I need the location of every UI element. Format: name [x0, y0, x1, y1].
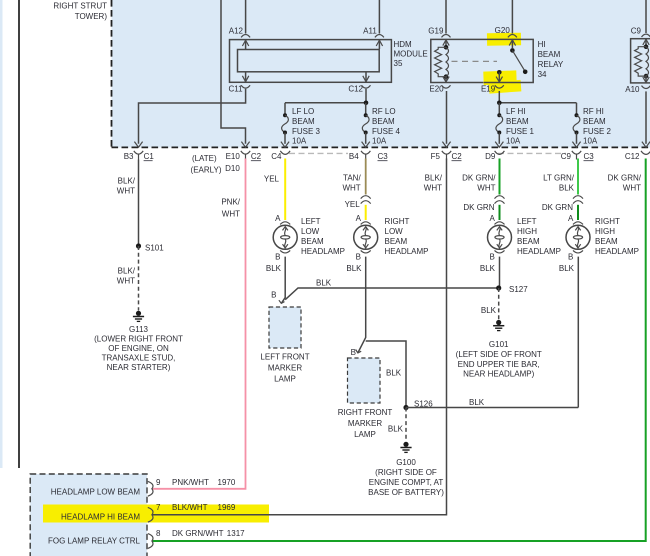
svg-text:BLK: BLK	[386, 368, 402, 377]
pin C11	[229, 72, 251, 94]
svg-text:BEAM: BEAM	[301, 237, 324, 246]
svg-text:HEADLAMP HI BEAM: HEADLAMP HI BEAM	[61, 513, 140, 522]
wire BLK splice branch to S127	[285, 288, 498, 300]
svg-text:34: 34	[538, 70, 547, 79]
svg-text:C2: C2	[251, 152, 262, 161]
svg-text:BEAM: BEAM	[583, 117, 606, 126]
row FOG LAMP RELAY CTRL	[48, 529, 245, 548]
svg-text:BLK: BLK	[559, 184, 575, 193]
lamp E5: LEFT HIGH BEAM HEADLAMP	[488, 214, 562, 262]
svg-text:A: A	[356, 214, 362, 223]
highlight over G20	[487, 33, 521, 46]
svg-text:TOWER): TOWER)	[75, 12, 108, 21]
svg-text:BLK/: BLK/	[425, 174, 443, 183]
connector B3 / C1	[124, 151, 155, 161]
svg-text:BLK: BLK	[346, 264, 362, 273]
pin E19	[481, 70, 504, 94]
svg-text:BEAM: BEAM	[292, 117, 315, 126]
lamp E6: RIGHT HIGH BEAM HEADLAMP	[566, 214, 639, 262]
svg-text:RIGHT: RIGHT	[385, 217, 410, 226]
svg-text:10A: 10A	[506, 137, 521, 146]
svg-text:1969: 1969	[218, 503, 236, 512]
svg-text:RIGHT STRUT: RIGHT STRUT	[53, 2, 107, 11]
labels LT GRN/BLK	[543, 174, 575, 193]
wire S127 to G101 (dashed)	[481, 288, 499, 320]
wire LT GRN/BLK	[577, 159, 579, 195]
svg-text:LEFT: LEFT	[517, 217, 537, 226]
svg-text:DK GRN/WHT: DK GRN/WHT	[172, 529, 224, 538]
svg-text:LEFT: LEFT	[301, 217, 321, 226]
svg-text:NEAR HEADLAMP): NEAR HEADLAMP)	[463, 370, 534, 379]
fuse LF HI BEAM FUSE 1	[495, 103, 534, 147]
svg-text:BLK/: BLK/	[118, 176, 136, 185]
connector C12 (right)	[625, 151, 650, 161]
svg-text:YEL: YEL	[264, 175, 280, 184]
svg-text:NEAR STARTER): NEAR STARTER)	[107, 363, 171, 372]
svg-text:WHT: WHT	[222, 210, 240, 219]
svg-text:C9: C9	[561, 152, 572, 161]
svg-text:HEADLAMP LOW BEAM: HEADLAMP LOW BEAM	[51, 487, 141, 496]
wire G19 feed from top	[445, 0, 447, 34]
connector D9	[485, 151, 504, 161]
svg-text:RIGHT: RIGHT	[595, 217, 620, 226]
relay K2 coil with parallel resistor	[635, 44, 649, 78]
svg-text:C4: C4	[271, 152, 282, 161]
svg-text:BEAM: BEAM	[385, 237, 408, 246]
svg-text:G101: G101	[489, 340, 509, 349]
wire lamp B down to S126 run	[577, 257, 579, 408]
pin E20	[429, 77, 450, 94]
inline connector	[573, 196, 583, 204]
pin G19	[428, 27, 450, 48]
labels PNK/WHT (E10 wire)	[221, 198, 240, 219]
pin G20	[495, 26, 517, 48]
ground G113	[94, 311, 183, 372]
op-module U1: HDM MODULE 35 outer box	[230, 40, 428, 83]
wire C9 feed from top	[645, 0, 647, 33]
wire A12 feed from top	[245, 0, 247, 34]
node S126	[403, 400, 433, 411]
svg-text:1970: 1970	[218, 478, 236, 487]
node S101	[136, 243, 164, 252]
svg-text:OF ENGINE, ON: OF ENGINE, ON	[108, 344, 169, 353]
labels TAN/WHT	[342, 174, 361, 193]
svg-text:BASE OF BATTERY): BASE OF BATTERY)	[368, 488, 444, 497]
svg-text:C12: C12	[348, 85, 363, 94]
svg-text:DK GRN/: DK GRN/	[608, 174, 642, 183]
inline connector	[361, 196, 371, 204]
pin A10	[625, 76, 650, 94]
svg-text:LF LO: LF LO	[292, 107, 314, 116]
svg-text:S127: S127	[509, 285, 528, 294]
svg-text:FUSE 1: FUSE 1	[506, 127, 535, 136]
svg-text:A: A	[275, 214, 281, 223]
wire B3 to S101	[138, 160, 140, 247]
svg-text:HDM: HDM	[394, 40, 413, 49]
svg-text:LAMP: LAMP	[274, 375, 296, 384]
svg-text:(LATE): (LATE)	[192, 154, 217, 163]
pin A12	[229, 27, 250, 50]
svg-text:C12: C12	[625, 152, 640, 161]
connector E10 / C2 (LATE) D10 (EARLY)	[191, 151, 262, 175]
svg-text:BLK: BLK	[388, 425, 404, 434]
svg-text:BLK/: BLK/	[118, 266, 136, 275]
pin C9 (right component)	[631, 27, 650, 47]
svg-text:BLK: BLK	[266, 264, 282, 273]
left vertical border line	[18, 0, 20, 468]
svg-text:(LOWER RIGHT FRONT: (LOWER RIGHT FRONT	[94, 335, 183, 344]
pin C12	[348, 72, 370, 94]
svg-text:END UPPER TIE BAR,: END UPPER TIE BAR,	[458, 360, 540, 369]
svg-text:RF HI: RF HI	[583, 107, 604, 116]
svg-text:HIGH: HIGH	[517, 227, 537, 236]
label: RIGHT STRUT TOWER (partial)	[53, 2, 107, 21]
wire G20 feed from top	[511, 0, 513, 34]
svg-text:35: 35	[394, 59, 403, 68]
svg-text:10A: 10A	[583, 137, 598, 146]
svg-text:10A: 10A	[372, 137, 387, 146]
svg-text:7: 7	[156, 503, 161, 512]
wire lamp B down to left marker lamp	[282, 257, 286, 303]
svg-text:E10: E10	[226, 152, 241, 161]
node C12 junction	[364, 101, 369, 106]
svg-text:LT GRN/: LT GRN/	[543, 174, 575, 183]
svg-text:BLK: BLK	[469, 398, 485, 407]
svg-text:B: B	[489, 252, 494, 261]
svg-text:A10: A10	[625, 85, 640, 94]
svg-text:8: 8	[156, 529, 161, 538]
svg-text:C1: C1	[144, 152, 155, 161]
fuse RF LO BEAM FUSE 4	[362, 103, 401, 147]
svg-text:A11: A11	[363, 27, 377, 36]
svg-text:S101: S101	[145, 243, 164, 252]
svg-text:MARKER: MARKER	[268, 364, 302, 373]
svg-text:B: B	[568, 252, 573, 261]
svg-text:FOG LAMP RELAY CTRL: FOG LAMP RELAY CTRL	[48, 537, 141, 546]
wire E20 to F5 connector	[442, 91, 450, 147]
connector C9 / C3	[561, 151, 595, 161]
svg-text:BEAM: BEAM	[372, 117, 395, 126]
wire TAN/WHT	[365, 159, 367, 195]
wire C12 to fuse feeds	[285, 89, 366, 103]
wire C11 to B3 connector	[134, 89, 245, 147]
wire branch to S126	[366, 341, 406, 408]
svg-text:BLK: BLK	[481, 306, 497, 315]
row HEADLAMP HI BEAM	[61, 503, 236, 522]
fuse RF HI BEAM FUSE 2	[572, 103, 611, 147]
ground G100	[368, 442, 444, 497]
relay K1: HI BEAM RELAY 34 box	[431, 39, 564, 82]
lamp E4: RIGHT FRONT MARKER LAMP	[338, 358, 393, 439]
connector block box	[30, 474, 147, 556]
svg-text:HEADLAMP: HEADLAMP	[517, 247, 561, 256]
svg-text:MODULE: MODULE	[394, 50, 428, 59]
relay K2 coil box (cut off at right edge)	[631, 39, 650, 83]
wire E19 to fuses	[499, 91, 576, 103]
svg-text:LOW: LOW	[301, 227, 320, 236]
svg-text:C9: C9	[631, 27, 642, 36]
svg-text:PNK/WHT: PNK/WHT	[172, 478, 209, 487]
svg-text:BEAM: BEAM	[538, 50, 561, 59]
svg-text:G113: G113	[129, 325, 149, 334]
relay coil with parallel resistor	[435, 45, 449, 79]
relay actuation dashed link	[452, 60, 498, 62]
node S127	[496, 285, 528, 294]
row HEADLAMP LOW BEAM	[51, 478, 236, 497]
svg-text:B: B	[275, 252, 280, 261]
svg-text:C3: C3	[584, 152, 595, 161]
svg-text:9: 9	[156, 478, 161, 487]
highlight over E19	[483, 70, 521, 93]
svg-text:LF HI: LF HI	[506, 107, 526, 116]
left margin blue strip	[0, 0, 3, 468]
relay switch	[510, 48, 527, 74]
svg-text:(RIGHT SIDE OF: (RIGHT SIDE OF	[375, 468, 437, 477]
lamp E3: LEFT FRONT MARKER LAMP	[260, 307, 309, 384]
svg-text:DK GRN/: DK GRN/	[462, 174, 496, 183]
svg-text:FUSE 3: FUSE 3	[292, 127, 321, 136]
svg-text:G19: G19	[428, 27, 444, 36]
svg-text:D10: D10	[225, 164, 240, 173]
svg-text:C3: C3	[378, 152, 389, 161]
blue engine-compartment dashed box	[112, 0, 650, 148]
svg-text:BLK/WHT: BLK/WHT	[172, 503, 208, 512]
svg-text:C11: C11	[229, 85, 244, 94]
svg-text:BEAM: BEAM	[517, 237, 540, 246]
labels DK GRN/WHT	[462, 174, 496, 193]
svg-text:PNK/: PNK/	[221, 198, 240, 207]
svg-text:MARKER: MARKER	[348, 419, 382, 428]
svg-text:TRANSAXLE STUD,: TRANSAXLE STUD,	[102, 354, 176, 363]
connector F5 / C2	[431, 151, 463, 161]
svg-text:WHT: WHT	[424, 184, 442, 193]
wire S101 to G113 (dashed)	[138, 246, 140, 311]
wire lamp B to S127	[499, 257, 501, 288]
labels BLK/WHT (F5 wire)	[424, 174, 443, 193]
svg-text:HI: HI	[538, 40, 546, 49]
ground G101	[456, 320, 542, 379]
wire YEL C4 to lamp	[284, 159, 286, 221]
labels BLK/WHT	[117, 266, 136, 285]
svg-text:B: B	[271, 290, 276, 299]
svg-text:ENGINE COMPT, AT: ENGINE COMPT, AT	[369, 478, 444, 487]
svg-text:F5: F5	[431, 152, 441, 161]
svg-text:A: A	[568, 214, 574, 223]
svg-text:B: B	[356, 252, 361, 261]
svg-text:FUSE 4: FUSE 4	[372, 127, 401, 136]
svg-text:RIGHT FRONT: RIGHT FRONT	[338, 408, 393, 417]
wire F5 BLK/WHT to pin 7	[152, 159, 446, 515]
wire DK GRN/WHT	[499, 159, 501, 195]
svg-text:HIGH: HIGH	[595, 227, 615, 236]
lamp E1: LEFT LOW BEAM HEADLAMP	[273, 214, 345, 262]
fuse LF LO BEAM FUSE 3	[281, 103, 321, 147]
wire DK GRN to lamp	[499, 205, 501, 220]
wire pin 7 segment over highlight	[152, 514, 270, 516]
svg-text:HEADLAMP: HEADLAMP	[595, 247, 639, 256]
wire lamp B down to right marker lamp	[358, 257, 366, 353]
svg-text:LOW: LOW	[385, 227, 404, 236]
svg-text:YEL: YEL	[345, 200, 361, 209]
svg-text:RF LO: RF LO	[372, 107, 396, 116]
svg-text:BLK: BLK	[559, 264, 575, 273]
svg-text:BLK: BLK	[480, 264, 496, 273]
wire C12 DK GRN/WHT to pin 8	[152, 159, 645, 542]
node E19 junction	[497, 101, 502, 106]
wire YEL to lamp	[365, 205, 367, 220]
svg-text:G100: G100	[396, 458, 416, 467]
wire E10 feed from top	[221, 0, 250, 147]
lamp E2: RIGHT LOW BEAM HEADLAMP	[354, 214, 429, 262]
pin A11	[363, 27, 384, 50]
wire DK GRN to lamp	[577, 205, 579, 220]
svg-text:WHT: WHT	[342, 184, 360, 193]
connector C4	[271, 151, 290, 161]
svg-text:WHT: WHT	[623, 184, 641, 193]
svg-text:HEADLAMP: HEADLAMP	[385, 247, 429, 256]
svg-text:10A: 10A	[292, 137, 307, 146]
labels DK GRN/WHT (C12 wire)	[608, 174, 642, 193]
connector B4 / C3	[349, 151, 388, 161]
svg-text:(LEFT SIDE OF FRONT: (LEFT SIDE OF FRONT	[456, 350, 542, 359]
svg-text:B3: B3	[124, 152, 134, 161]
wire A11 feed from top	[378, 0, 380, 34]
svg-text:B: B	[351, 348, 356, 357]
svg-text:A: A	[489, 214, 495, 223]
highlight over HEADLAMP HI BEAM row	[43, 505, 269, 523]
svg-text:WHT: WHT	[117, 276, 135, 285]
svg-text:FUSE 2: FUSE 2	[583, 127, 612, 136]
svg-text:A12: A12	[229, 27, 244, 36]
svg-text:DK GRN: DK GRN	[463, 203, 494, 212]
wire E10 PNK/WHT to pin 9	[152, 159, 245, 489]
svg-text:D9: D9	[485, 152, 496, 161]
inline connector	[495, 196, 505, 204]
svg-text:HEADLAMP: HEADLAMP	[301, 247, 345, 256]
svg-text:G20: G20	[495, 26, 511, 35]
svg-text:WHT: WHT	[117, 186, 135, 195]
wire S126 to right high beam B	[406, 398, 578, 407]
wire S126 to G100 (dashed)	[388, 408, 406, 442]
svg-text:BEAM: BEAM	[595, 237, 618, 246]
svg-text:B4: B4	[349, 152, 359, 161]
gray dashed alternate-border segments	[289, 152, 348, 154]
svg-text:DK GRN: DK GRN	[542, 203, 573, 212]
svg-text:BLK: BLK	[316, 279, 332, 288]
svg-text:RELAY: RELAY	[538, 60, 564, 69]
labels BLK/WHT	[117, 176, 136, 195]
svg-text:BEAM: BEAM	[506, 117, 529, 126]
svg-text:E19: E19	[481, 85, 496, 94]
wire A10 to C12 connector	[642, 91, 650, 147]
svg-text:LAMP: LAMP	[354, 430, 376, 439]
svg-text:LEFT FRONT: LEFT FRONT	[260, 353, 309, 362]
svg-text:1317: 1317	[227, 529, 245, 538]
svg-text:TAN/: TAN/	[343, 174, 361, 183]
svg-text:(EARLY): (EARLY)	[191, 165, 222, 174]
svg-text:C2: C2	[452, 152, 463, 161]
svg-text:WHT: WHT	[477, 184, 495, 193]
